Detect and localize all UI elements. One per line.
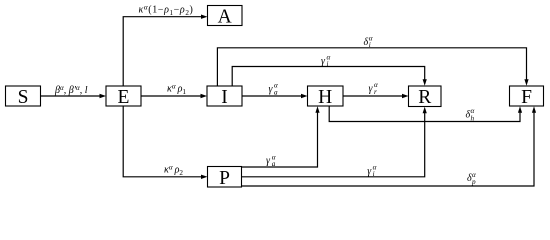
label delta_h xyxy=(466,107,475,122)
wire I-F top (delta_i) xyxy=(217,48,528,86)
wire I-R top (gamma_i) xyxy=(232,67,427,87)
wire S-E xyxy=(41,94,107,98)
label gamma_i bottom xyxy=(367,164,376,178)
wire P-R (gamma_i) xyxy=(242,107,427,177)
label kappa(1-rho1-rho2) xyxy=(139,3,194,17)
svg-text:F: F xyxy=(521,87,532,108)
label beta xyxy=(54,84,88,96)
svg-text:i: i xyxy=(327,60,329,68)
box R xyxy=(409,86,442,108)
wire E-P xyxy=(123,106,207,179)
svg-text:A: A xyxy=(218,7,232,28)
svg-text:a: a xyxy=(274,88,278,96)
box F xyxy=(510,86,544,108)
box E xyxy=(106,86,141,108)
label delta_p xyxy=(467,171,476,186)
label gamma_r xyxy=(369,81,379,96)
svg-text:h: h xyxy=(471,114,475,122)
box H xyxy=(308,86,344,108)
label gamma_a (I-H) xyxy=(269,82,279,97)
label gamma_a (P-H) xyxy=(266,153,276,168)
wire E-I xyxy=(141,94,207,98)
svg-text:S: S xyxy=(18,87,29,108)
wire P-H (gamma_a) xyxy=(242,106,320,167)
box I xyxy=(207,86,242,108)
wire E-A xyxy=(123,15,207,87)
svg-text:i: i xyxy=(369,41,371,49)
svg-text:E: E xyxy=(118,87,130,108)
label kappa rho1 xyxy=(167,82,186,96)
label kappa rho2 xyxy=(164,163,183,177)
wire P-F (delta_p) xyxy=(242,106,537,186)
wire I-H xyxy=(242,94,308,98)
label gamma_i top xyxy=(321,54,331,68)
svg-text:βα, β′α, l: βα, β′α, l xyxy=(54,84,88,96)
svg-text:p: p xyxy=(471,178,476,186)
svg-text:P: P xyxy=(219,168,230,189)
wire H-R xyxy=(343,94,409,98)
svg-text:R: R xyxy=(418,87,431,108)
wire H-F (delta_h) xyxy=(329,106,522,122)
svg-text:i: i xyxy=(373,170,375,178)
svg-text:r: r xyxy=(374,88,377,96)
svg-text:I: I xyxy=(221,87,228,108)
svg-text:δ: δ xyxy=(364,37,369,48)
box S xyxy=(6,86,41,108)
box A xyxy=(208,6,243,28)
svg-text:H: H xyxy=(318,87,332,108)
svg-text:a: a xyxy=(272,160,276,168)
label delta_i top xyxy=(364,35,373,49)
box P xyxy=(208,167,242,189)
